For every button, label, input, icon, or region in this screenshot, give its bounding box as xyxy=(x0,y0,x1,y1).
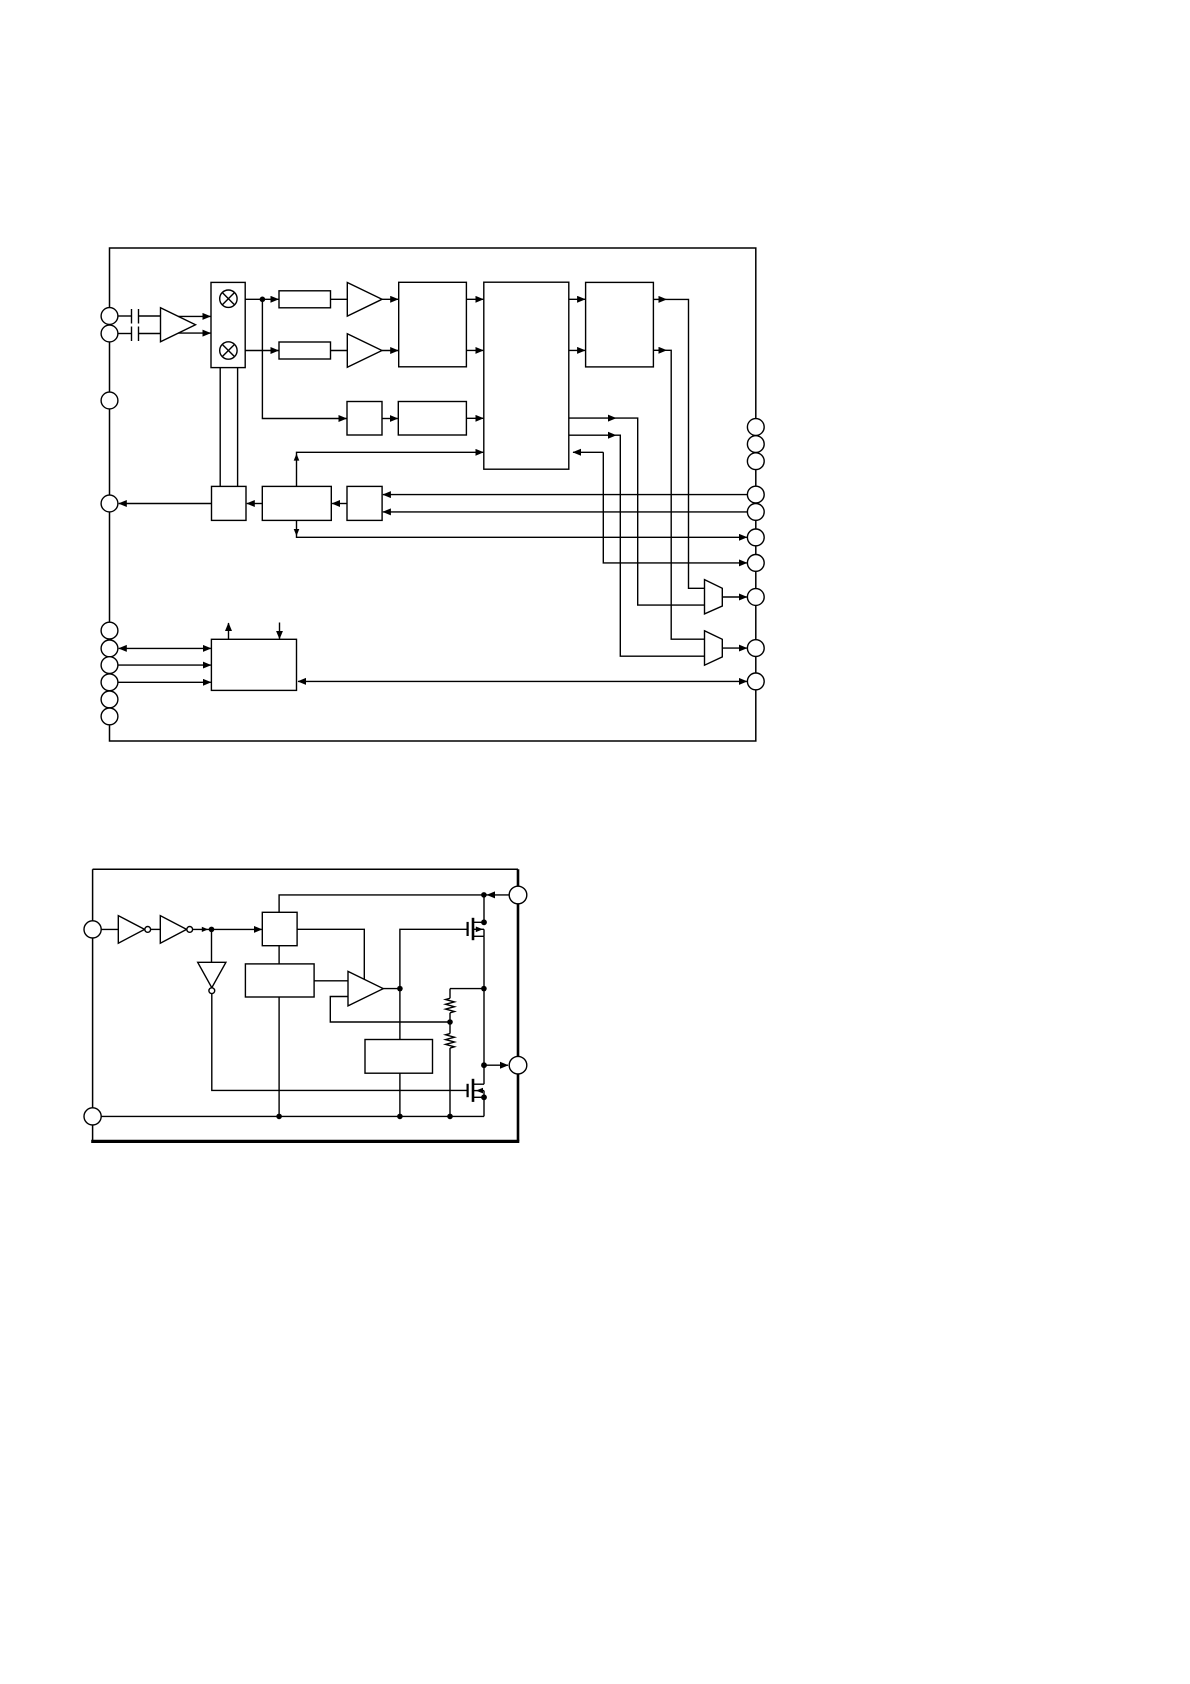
transistor Q2 (low-side NMOS) xyxy=(483,1065,485,1084)
pin IN- (left) xyxy=(101,325,118,342)
wire pin CLK to CTRL xyxy=(118,664,211,666)
block LOGIC (square) xyxy=(262,912,297,945)
pin (right) in B xyxy=(747,504,764,521)
pin VOUT (right) xyxy=(509,1056,527,1074)
node N1 (junction dot) xyxy=(260,297,266,303)
input amplifier A1 xyxy=(161,308,196,342)
inverter G3 (pointing down) xyxy=(211,929,213,962)
pin VCC (right top) xyxy=(509,886,527,904)
pin (right) out C xyxy=(747,529,764,546)
block IF1 xyxy=(399,282,467,367)
pin (right) mux2 out xyxy=(747,640,764,657)
wire F3 to F4 xyxy=(382,418,398,420)
wire mixer I out to node N1 xyxy=(245,298,278,300)
pin (right) serial data xyxy=(747,673,764,690)
wire output node to resistor R1 xyxy=(450,988,484,990)
capacitor C1 xyxy=(118,315,132,317)
wire DSP out to mux M1 lower input xyxy=(569,417,616,419)
wire PD to VCO xyxy=(332,503,347,505)
wire G3 to low-side gate xyxy=(212,994,467,1091)
wire VCC pin to rail node xyxy=(487,894,509,896)
block PD (small) xyxy=(347,486,382,520)
wire N3 to high-side gate xyxy=(400,929,467,988)
resistor R1 xyxy=(449,989,451,999)
amplifier A3 xyxy=(347,334,382,368)
block DEC (right) xyxy=(586,282,654,367)
pin (right) out D xyxy=(747,555,764,572)
wire VCO down to pin C xyxy=(297,520,747,537)
wire B1 to pin LO out xyxy=(119,503,212,505)
filter F3 (small square) xyxy=(347,402,382,436)
wire F1 to A2 xyxy=(331,298,348,300)
inverter G2 xyxy=(160,916,186,944)
filter F2 xyxy=(279,342,331,359)
wire G2 to logic block xyxy=(193,928,262,930)
wire PLL up into DSP left input xyxy=(297,452,484,486)
resistor R2 xyxy=(449,1022,451,1034)
mixer element X1 xyxy=(220,290,237,307)
comparator A4 xyxy=(348,971,383,1006)
wire IF1 to DSP (row1) xyxy=(466,298,483,300)
wire F2 to A3 xyxy=(331,350,348,352)
block VCO (middle) xyxy=(262,486,331,520)
wire pin A to PD xyxy=(383,494,748,496)
stub CTRL status out (up arrow) xyxy=(228,623,230,639)
stub CTRL control in (down arrow) xyxy=(279,623,281,639)
pin (left, nc) xyxy=(101,392,118,409)
node rail/PROT (junction dot) xyxy=(397,1114,403,1120)
filter F1 xyxy=(279,291,331,308)
wire DSP out to mux M2 lower input xyxy=(569,434,616,436)
wire A3 to block IF1 xyxy=(382,350,398,352)
capacitor C2 xyxy=(118,333,132,335)
wire A1 to mixer (upper) xyxy=(178,315,210,317)
wire pin D7 to DSP right input xyxy=(573,451,603,453)
node N2 xyxy=(209,927,215,933)
pin LO out (left) xyxy=(101,495,118,512)
pin IN+ (left) xyxy=(101,308,118,325)
node rail/R2 (junction dot) xyxy=(447,1114,453,1120)
block DSP (central) xyxy=(484,282,569,469)
node VCC rail (junction dot) xyxy=(481,892,487,898)
block BIAS xyxy=(245,964,314,997)
wire A2 to block IF1 xyxy=(382,298,398,300)
pin (right) mux1 out xyxy=(747,589,764,606)
LO feed lines from mixer to block B1 xyxy=(219,368,221,487)
wire LOGIC to VCC rail xyxy=(279,895,484,912)
pin group control (left) xyxy=(101,622,118,639)
block B1 (LO buffer under mixer) xyxy=(212,486,247,520)
wire A1 to mixer (lower) xyxy=(178,332,210,334)
pin GND (left) xyxy=(84,1108,101,1125)
node R1/R2 divider (junction dot) xyxy=(447,1019,453,1025)
wire VIN to inverter xyxy=(101,928,118,930)
transistor Q1 (high-side PMOS) xyxy=(467,922,469,936)
node rail/BIAS (junction dot) xyxy=(276,1114,282,1120)
wire DEC out1 to mux M1 upper input xyxy=(653,298,666,300)
node output/R1 (junction dot) xyxy=(481,986,487,992)
filter F4 xyxy=(398,402,466,436)
driver outer boundary xyxy=(93,868,518,870)
wire CTRL to pin serial data (bidirectional) xyxy=(298,680,747,682)
pin (right) in A xyxy=(747,486,764,503)
wire node N1 down to F3 (row3) xyxy=(262,299,346,418)
wire output node down to VOUT junction xyxy=(483,989,485,1066)
wire pin DATA to CTRL (bidirectional) xyxy=(119,647,211,649)
wire comparator output to node N3 xyxy=(383,988,400,990)
wire DSP to DEC (row1) xyxy=(569,298,585,300)
node N3 xyxy=(397,986,403,992)
wire IF1 to DSP (row2) xyxy=(466,349,483,351)
wire LOGIC to comparator top xyxy=(297,929,364,979)
wire pin CE to CTRL xyxy=(118,681,211,683)
wire pin B to PD xyxy=(383,511,748,513)
mixer U1 (quadrature mixer box) xyxy=(211,282,245,367)
wire BIAS down to ground rail xyxy=(278,997,280,1116)
wire BIAS to comparator input xyxy=(314,980,348,982)
inverter G1 xyxy=(118,916,144,944)
amplifier A2 xyxy=(347,283,382,317)
pin group (right top) xyxy=(747,419,764,436)
mux M2 xyxy=(705,631,723,665)
wire F4 to DSP xyxy=(466,417,483,419)
mixer element X2 xyxy=(220,342,237,359)
wire M1 to pin xyxy=(722,596,747,598)
mux M1 xyxy=(705,580,723,614)
wire G1 to G2 xyxy=(151,928,161,930)
IC outer boundary xyxy=(110,248,756,741)
wire N3 down to PROT block xyxy=(399,989,401,1040)
wire DSP to DEC (row2) xyxy=(569,349,585,351)
wire mixer Q out to F2 xyxy=(245,350,278,352)
wire PROT to ground rail xyxy=(399,1073,401,1116)
block PROT xyxy=(365,1040,433,1074)
wire VCO to B1 xyxy=(247,503,262,505)
wire M2 to pin xyxy=(722,647,747,649)
wire node to pin VOUT xyxy=(484,1064,508,1066)
node VOUT (junction dot) xyxy=(481,1062,487,1068)
pin VIN (left) xyxy=(84,921,101,938)
wire feedback into comparator xyxy=(330,997,450,1023)
wire DEC out2 to mux M2 upper input xyxy=(653,349,666,351)
block CTRL (serial interface) xyxy=(211,639,296,690)
ground rail xyxy=(101,1115,484,1117)
wire LOGIC to BIAS xyxy=(278,946,280,964)
